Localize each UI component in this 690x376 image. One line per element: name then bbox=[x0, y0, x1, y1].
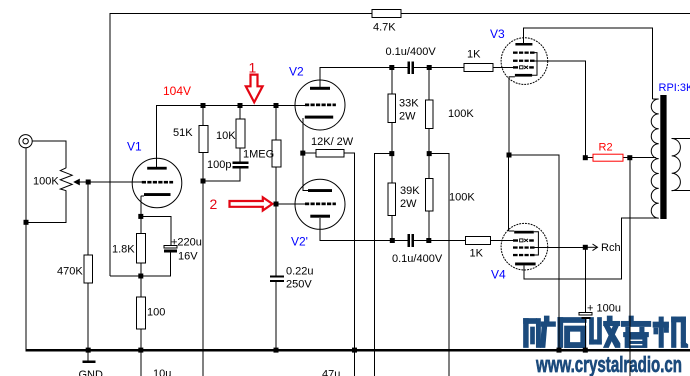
ground bus bbox=[25, 349, 690, 351]
tube V4 g3 bbox=[513, 254, 535, 256]
wire V2 cathode drop bbox=[302, 118, 304, 153]
svg-text:V1: V1 bbox=[127, 140, 142, 154]
node 104V plate row / 10K junction bbox=[238, 103, 243, 108]
capacitor 0.1u/400V upper bbox=[408, 61, 415, 74]
tube V4 g1 beam row bbox=[513, 239, 534, 241]
svg-text:2: 2 bbox=[210, 196, 218, 212]
wire 51K column top bbox=[202, 106, 204, 126]
wire 1MEG bottom to node 2 bbox=[275, 167, 277, 275]
svg-text:V2': V2' bbox=[291, 235, 308, 249]
tube V2 plate bbox=[310, 87, 330, 90]
wire node B2 corner bbox=[429, 154, 449, 376]
wire 1K to V3 grid bbox=[493, 67, 513, 69]
node 0.1u lower / 100K bottom junction bbox=[426, 238, 431, 243]
tube V3 g2 bbox=[513, 60, 535, 62]
node 100-10u bus junction bbox=[138, 348, 143, 353]
resistor 12K/2W bbox=[316, 149, 344, 157]
transformer secondary winding bbox=[672, 139, 681, 191]
red arrow 1 bbox=[246, 75, 263, 103]
tube V3 cathode bbox=[515, 74, 532, 77]
resistor 470K bbox=[84, 255, 93, 283]
resistor 1K lower bbox=[466, 237, 491, 245]
wire cathode node to ground drop bbox=[509, 155, 559, 350]
potentiometer 100K zigzag bbox=[60, 168, 72, 191]
wire 51K bottom to B+ drop bbox=[202, 153, 204, 376]
wire input jack to pot bbox=[33, 141, 67, 168]
svg-text:V4: V4 bbox=[491, 268, 506, 282]
svg-text:100K: 100K bbox=[33, 176, 59, 188]
wire grid row pot wiper to V1 bbox=[76, 181, 142, 183]
tube V3 g3 bbox=[513, 52, 535, 54]
resistor 1.8K bbox=[136, 234, 145, 264]
tube V2 grid bbox=[305, 104, 336, 107]
svg-text:100: 100 bbox=[147, 307, 165, 319]
node 1.8K-100 / feedback / 220u bottom junction bbox=[138, 274, 143, 279]
node 0.1u upper / 100K top junction bbox=[427, 65, 432, 70]
node 1 V2 grid / 1MEG junction bbox=[274, 103, 279, 108]
svg-text:51K: 51K bbox=[173, 127, 193, 139]
resistor R2 red outline bbox=[593, 154, 623, 161]
svg-text:1K: 1K bbox=[467, 49, 481, 61]
wire V1 cathode drop bbox=[140, 196, 142, 234]
resistor 33K bbox=[388, 94, 396, 123]
node Rch junction bbox=[583, 245, 588, 250]
transformer primary winding bbox=[651, 99, 658, 218]
svg-text:www.crystalradio.cn: www.crystalradio.cn bbox=[535, 352, 682, 376]
svg-text:1K: 1K bbox=[470, 248, 484, 260]
wire 100K lower bottom bbox=[428, 211, 430, 240]
svg-text:4.7K: 4.7K bbox=[373, 22, 396, 34]
wire V2 plate riser to top row bbox=[320, 68, 408, 88]
capacitor 0.22u bbox=[270, 275, 284, 282]
wire 100K mid column bbox=[428, 128, 430, 178]
tube V4 plate bbox=[515, 263, 536, 266]
svg-text:100p: 100p bbox=[207, 159, 231, 171]
wire 12K right to 47u drop bbox=[344, 153, 354, 376]
wire 1K to V4 grid bbox=[491, 240, 513, 242]
svg-text:1.8K: 1.8K bbox=[112, 244, 135, 256]
node GND bus junction bbox=[86, 348, 91, 353]
node 2 V2' grid / 1MEG / 0.22u junction bbox=[274, 202, 279, 207]
tube V3 g1 beam row bbox=[513, 66, 534, 68]
node 47u bus junction bbox=[352, 348, 357, 353]
node cathode-ground bus junction bbox=[557, 348, 562, 353]
wire secondary bottom lead bbox=[672, 190, 690, 192]
wire V4 cathode riser bbox=[508, 155, 510, 231]
wire V3 g2 to R2 column bbox=[535, 61, 586, 158]
wire 470K bottom to bus bbox=[87, 283, 89, 350]
svg-text:+220u: +220u bbox=[171, 237, 202, 249]
svg-text:V2: V2 bbox=[289, 65, 304, 79]
tube V3 envelope bbox=[501, 38, 548, 85]
wire 220u top branch bbox=[141, 216, 171, 245]
wire V1 plate riser bbox=[157, 106, 307, 168]
resistor 51K bbox=[199, 126, 208, 153]
svg-text:47u: 47u bbox=[322, 369, 340, 376]
tube V2' cathode bbox=[310, 215, 330, 218]
wire 0.22u bottom to bus bbox=[275, 282, 277, 350]
node 100u bus junction bbox=[583, 348, 588, 353]
node jack sleeve / pot bottom junction bbox=[24, 220, 29, 225]
Rch arrow bbox=[585, 244, 597, 251]
watermark char shou bbox=[590, 316, 621, 348]
wire R2 left lead bbox=[585, 157, 593, 159]
resistor 1MEG bbox=[272, 140, 281, 167]
svg-text:R2: R2 bbox=[599, 142, 613, 154]
wire Rch node down to 100u bbox=[584, 247, 586, 312]
input jack bbox=[19, 135, 32, 148]
watermark char ji bbox=[653, 317, 688, 348]
node V2 cathode / 12K junction bbox=[300, 151, 305, 156]
wire R2 node drop below image bbox=[629, 158, 631, 376]
wire 1MEG column top bbox=[275, 106, 277, 141]
tube V2' plate bbox=[308, 189, 332, 192]
resistor 100K lower bbox=[425, 178, 433, 211]
watermark char shi bbox=[558, 318, 586, 348]
tube V1 grid bbox=[142, 181, 173, 184]
tube V2 envelope bbox=[295, 80, 345, 130]
node R2 right junction bbox=[627, 155, 632, 160]
resistor 39K bbox=[388, 183, 396, 216]
transformer core bbox=[660, 95, 666, 219]
resistor R 4.7K bbox=[372, 10, 401, 18]
wire 100u to bus bbox=[584, 319, 586, 350]
svg-text:39K: 39K bbox=[400, 185, 420, 197]
tube V2' grid bbox=[305, 203, 336, 206]
watermark char yin bbox=[621, 316, 651, 348]
node 100K-100K junction bbox=[427, 151, 432, 156]
wire V2' plate lead bbox=[303, 153, 309, 190]
tube V4 envelope bbox=[501, 223, 548, 270]
resistor 1K upper bbox=[464, 64, 493, 72]
svg-text:10K: 10K bbox=[216, 130, 236, 142]
node 0.22u bus junction bbox=[274, 348, 279, 353]
resistor 100K upper bbox=[425, 100, 433, 128]
svg-text:RPI:3K5: RPI:3K5 bbox=[659, 82, 690, 94]
wire 100 bottom through bus to 10u bbox=[140, 329, 142, 376]
svg-text:104V: 104V bbox=[163, 84, 191, 98]
svg-text:+ 100u: + 100u bbox=[587, 303, 621, 315]
potentiometer wiper arrow bbox=[76, 181, 88, 183]
wire feedback to cathode junction bbox=[110, 275, 141, 277]
wire lower row cap to 1K bbox=[414, 240, 465, 242]
resistor 100 bbox=[136, 297, 145, 329]
wire transformer primary top lead bbox=[652, 98, 658, 100]
wire V4 g2 to Rch node bbox=[535, 246, 586, 248]
wire 33K bottom to node B1 bbox=[391, 123, 393, 184]
svg-text:0.22u: 0.22u bbox=[286, 266, 314, 278]
tube V2' envelope bbox=[295, 179, 345, 229]
tube V1 plate bbox=[147, 167, 167, 170]
svg-text:10u: 10u bbox=[153, 368, 171, 376]
wire cathode node to 12K bbox=[303, 152, 316, 154]
wire 100p bottom to 51K column bbox=[203, 168, 240, 181]
wire top row cap to 1K bbox=[414, 67, 464, 69]
tube V4 g2 bbox=[513, 246, 535, 248]
resistor 10K bbox=[236, 119, 245, 148]
node V3-V4 cathode junction bbox=[507, 153, 512, 158]
tube V4 cathode bbox=[514, 231, 534, 234]
svg-text:2W: 2W bbox=[399, 111, 416, 123]
node 33K-39K junction bbox=[389, 151, 394, 156]
wire top feedback rail bbox=[110, 14, 372, 277]
red arrow 2 bbox=[230, 197, 273, 210]
wire 10K column top bbox=[239, 106, 241, 120]
svg-text:470K: 470K bbox=[57, 266, 83, 278]
wire 100K upper column bbox=[428, 68, 430, 101]
tube V1 envelope bbox=[132, 158, 182, 208]
svg-text:0.1u/400V: 0.1u/400V bbox=[392, 253, 443, 265]
wire V3 plate to transformer top bbox=[524, 28, 653, 99]
capacitor 0.1u/400V lower bbox=[408, 234, 415, 247]
svg-text:12K/ 2W: 12K/ 2W bbox=[311, 136, 354, 148]
node 51K bottom / 100p junction bbox=[201, 179, 206, 184]
tube V2 cathode bbox=[305, 116, 333, 119]
capacitor 100p bbox=[232, 161, 248, 168]
watermark char kuang bbox=[524, 316, 556, 348]
wire 220u bottom branch bbox=[141, 252, 171, 276]
svg-text:100K: 100K bbox=[448, 108, 474, 120]
wire pot bottom return bbox=[26, 191, 66, 223]
wire secondary top lead bbox=[672, 138, 690, 140]
wire R2 right lead to tap bbox=[623, 157, 656, 159]
node 104V plate row / 51K junction bbox=[201, 103, 206, 108]
wire 39K bottom bbox=[391, 216, 393, 241]
wire top rail right of 4.7K bbox=[401, 13, 690, 15]
wire 1.8K bottom bbox=[140, 263, 142, 297]
capacitor 220u electrolytic bbox=[164, 245, 177, 248]
wire 10K bottom to 100p bbox=[239, 148, 241, 162]
wire 33K column top bbox=[391, 68, 393, 95]
svg-text:0.1u/400V: 0.1u/400V bbox=[386, 46, 437, 58]
wire V2' cathode drop bbox=[320, 218, 408, 241]
wire jack ground drop bbox=[25, 148, 27, 350]
node V2 plate / 33K top junction bbox=[389, 65, 394, 70]
wire V3 cathode drop bbox=[508, 77, 510, 156]
wire node B1 corner bbox=[374, 154, 392, 376]
svg-text:V3: V3 bbox=[490, 27, 505, 41]
svg-text:100K: 100K bbox=[449, 192, 475, 204]
svg-text:2W: 2W bbox=[400, 198, 417, 210]
tube V3 plate bbox=[515, 43, 532, 46]
ground bar bbox=[82, 361, 95, 364]
svg-text:250V: 250V bbox=[286, 279, 312, 291]
node V1 cathode / 220u top junction bbox=[138, 214, 143, 219]
svg-text:Rch: Rch bbox=[601, 242, 621, 254]
tube V1 cathode bbox=[144, 193, 171, 196]
svg-text:1: 1 bbox=[249, 60, 257, 76]
node 39K bottom / V2' cathode junction bbox=[390, 238, 395, 243]
svg-text:GND: GND bbox=[79, 369, 104, 376]
svg-text:16V: 16V bbox=[178, 251, 198, 263]
svg-text:1MEG: 1MEG bbox=[243, 149, 274, 161]
wire node 2 to V2' grid bbox=[276, 203, 306, 205]
wire V4 plate to transformer bottom bbox=[524, 218, 659, 279]
capacitor 100u electrolytic bbox=[579, 313, 592, 316]
node pot wiper / 470K junction bbox=[86, 180, 91, 185]
ground stub bbox=[87, 351, 89, 361]
svg-text:33K: 33K bbox=[399, 98, 419, 110]
node V3 g2 / R2 left junction bbox=[583, 155, 588, 160]
wire 470K column bbox=[87, 182, 89, 255]
